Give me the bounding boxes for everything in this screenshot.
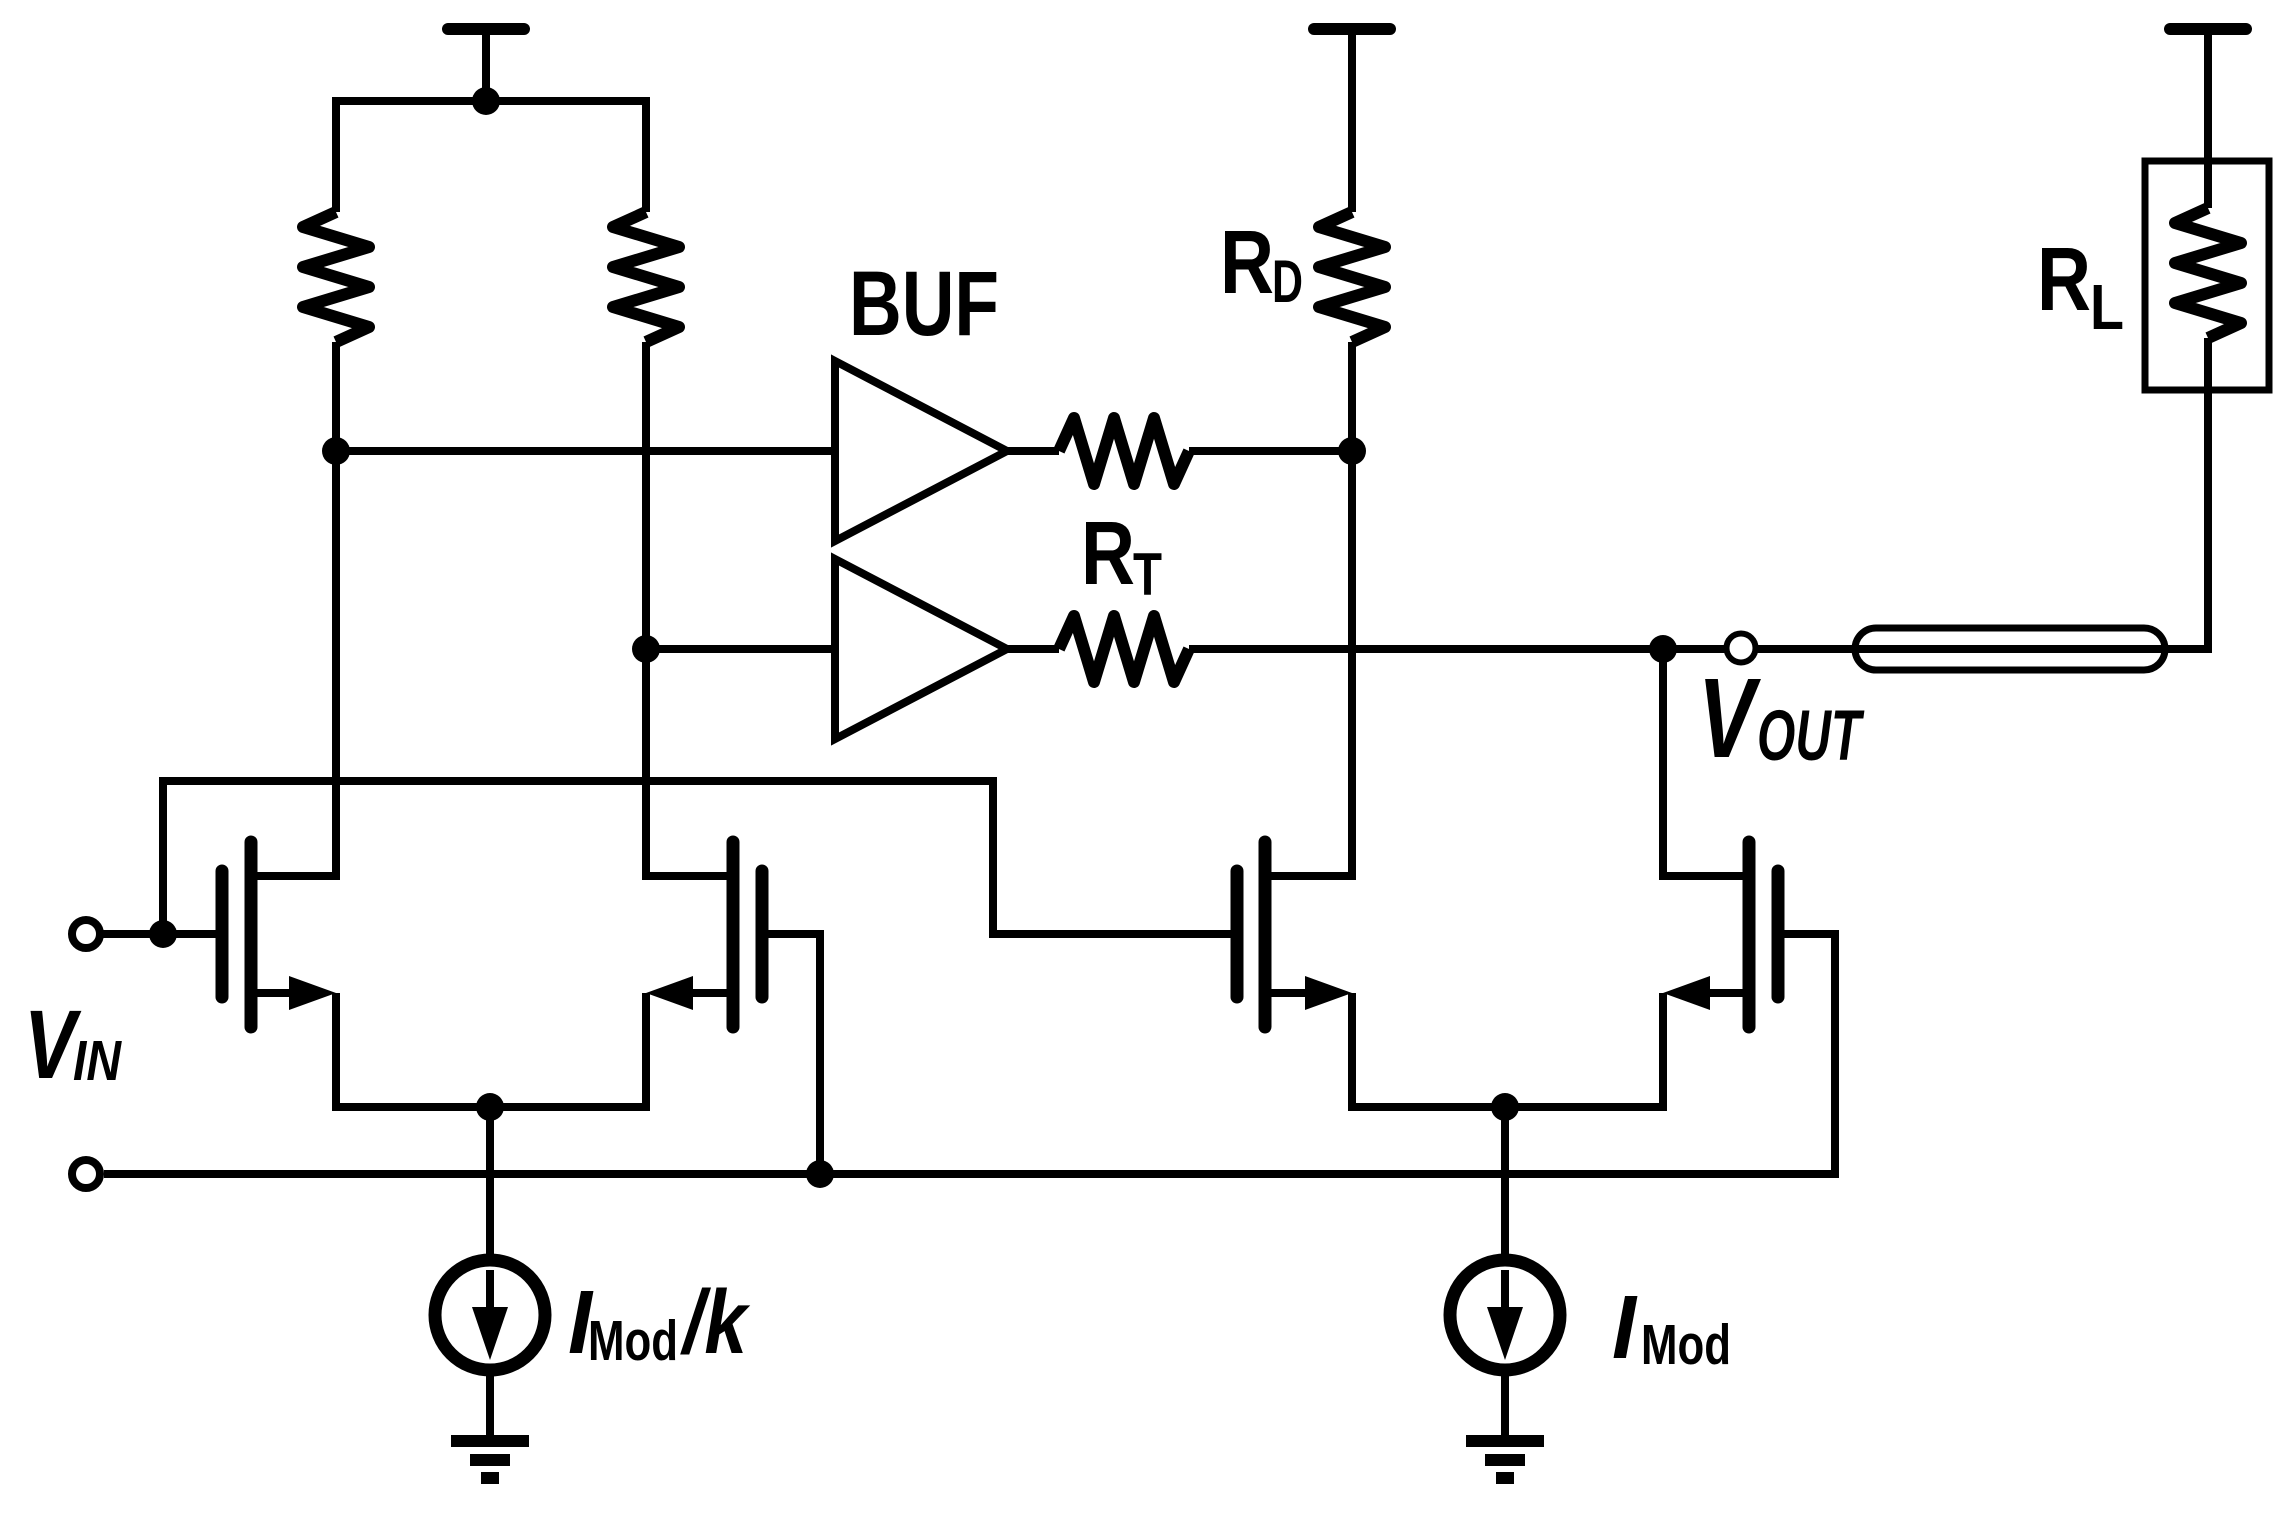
svg-text:R: R xyxy=(2037,230,2091,330)
svg-text:T: T xyxy=(1133,541,1162,608)
svg-text:BUF: BUF xyxy=(849,253,999,355)
svg-text:R: R xyxy=(1220,213,1274,313)
svg-text:OUT: OUT xyxy=(1757,697,1865,776)
svg-text:Mod: Mod xyxy=(588,1309,678,1373)
svg-text:Mod: Mod xyxy=(1641,1313,1731,1377)
svg-text:I: I xyxy=(1612,1278,1638,1378)
svg-text:V: V xyxy=(1698,655,1762,781)
svg-text:IN: IN xyxy=(73,1029,123,1093)
svg-text:R: R xyxy=(1081,504,1135,604)
svg-text:L: L xyxy=(2090,271,2124,343)
svg-text:/k: /k xyxy=(680,1273,751,1373)
svg-text:D: D xyxy=(1272,248,1303,315)
